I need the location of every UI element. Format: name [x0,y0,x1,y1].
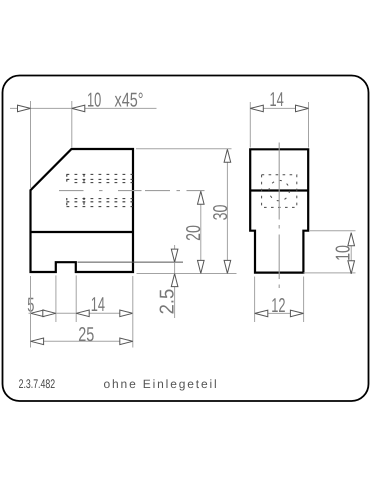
dim 20/30 extension line bottom [137,273,237,275]
svg-text:10: 10 [333,245,355,261]
dim 2.5 dimension line [174,245,176,318]
dim 30 arrow up [224,149,231,162]
dim 20 arrow down [198,260,205,273]
svg-text:2.3.7.482: 2.3.7.482 [19,377,56,391]
dim 14 top extension line right [308,102,310,148]
right view vertical centerline [278,143,280,289]
dim 14 top dimension line [250,107,308,109]
svg-text:10: 10 [87,90,101,112]
hidden pocket square [262,175,297,208]
dim 14 bottom arrow right [120,310,133,317]
dim 30 extension line top [136,148,232,150]
right view outline [250,149,308,272]
hidden hole circle [269,180,289,200]
dim 10 right extension line bottom [304,272,356,274]
dim 12 arrow right [290,310,303,317]
svg-text:14: 14 [91,294,105,316]
dim 25 dimension line [31,340,133,342]
left view step edge line [31,231,134,233]
dim 30 dimension line [226,149,228,273]
dim 14 top arrow right [296,105,309,112]
dim 10x45 extension line left [30,101,32,188]
dim 5/14 dimension line [29,312,134,314]
dim 14 top arrow left [250,105,263,112]
dim 10 right arrow down [348,261,355,274]
dim 2.5 extension line [78,261,184,263]
dim 10 right dimension line [350,233,352,274]
hidden hole line row4 [73,198,133,200]
left view outline [31,149,134,272]
dim 25 arrow right [120,338,133,345]
dim 12 extension line left [254,277,256,323]
dim 10x45 arrow right [72,105,85,112]
dim 5/14 extension line notch left [55,275,57,322]
dim 5 arrow left [31,310,44,317]
dim 2.5 arrow down-pointing [171,249,178,262]
dim 5/14 extension line notch right [75,275,77,322]
dim 20 arrow up [198,191,205,204]
dim 14 top extension line left [249,102,251,148]
dim 20 dimension line [200,191,202,273]
hidden hole left end verticals [67,174,84,206]
hole centerline [59,190,205,192]
dim 14 bottom arrow left [76,310,89,317]
dim 12 dimension line [255,312,304,314]
dim 25 arrow left [31,338,44,345]
hidden hole line row3 [73,182,133,184]
svg-text:ohne Einlegeteil: ohne Einlegeteil [104,377,219,391]
hidden hole line row6 [67,206,134,208]
svg-text:20: 20 [183,225,205,241]
dim 25 extension line left [30,276,32,348]
svg-text:x45°: x45° [115,90,144,112]
svg-text:25: 25 [78,324,94,346]
dim 10 right extension line top [310,230,356,232]
svg-text:30: 30 [210,205,232,221]
hidden hole line row5 [67,201,134,203]
dim 5 arrow right [43,310,56,317]
svg-text:12: 12 [271,295,285,317]
hidden hole line row1 [67,173,134,175]
dim 10x45 extension line right [71,101,73,148]
dim 25 extension line right [132,276,134,348]
hidden hole line row2 [67,178,134,180]
right view chamfer edge line [250,189,308,191]
dim 10x45 arrow left [18,105,31,112]
svg-text:14: 14 [270,89,284,111]
svg-text:2.5: 2.5 [156,289,178,315]
dim 12 extension line right [303,277,305,323]
dim 2.5 arrow up-pointing [171,274,178,287]
drawing frame [3,76,369,402]
dim 12 arrow left [255,310,268,317]
dim 10 right arrow up [348,233,355,246]
dim 30 arrow down [224,260,231,273]
dim 10x45 dimension line [10,107,157,109]
